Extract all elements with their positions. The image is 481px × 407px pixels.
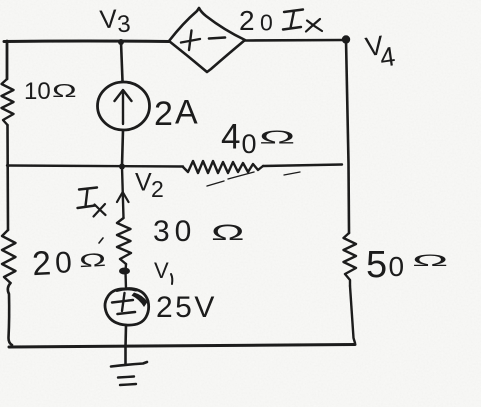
label 20ohm [31,241,107,283]
resistor R 10ohm vertical zigzag [2,79,14,125]
arrow inside current source [115,90,132,124]
svg-text:0: 0 [242,129,257,159]
svg-text:Ω: Ω [79,250,107,272]
svg-text:0: 0 [260,10,273,36]
plus sign inside voltage source [112,293,133,311]
label 10ohm omega [52,81,77,101]
svg-text:Ω: Ω [52,81,77,101]
faint mark right of resistor [284,172,300,175]
wire top right from diamond to node V4 [245,39,346,42]
current source U1 circle 2A [98,82,150,130]
dependent source diamond 20Ix [169,8,245,72]
node V4 junction dot [342,35,350,43]
svg-text:3: 3 [116,10,131,38]
label V3 [99,2,132,39]
right rail top segment [346,40,349,234]
svg-text:25V: 25V [156,291,217,324]
label 40ohm [221,118,295,160]
wire current source to middle node [122,130,123,166]
svg-text:V: V [99,3,119,34]
right rail bottom segment [350,286,355,343]
svg-text:2: 2 [31,244,52,283]
wire bottom rail [9,345,355,348]
svg-text:Ω: Ω [412,251,448,270]
svg-text:Ω: Ω [259,127,295,147]
svg-text:10: 10 [24,78,51,105]
label 20Ix [239,5,322,36]
svg-text:2: 2 [154,95,173,133]
wire middle horizontal right to right rail [263,165,342,167]
left rail middle segment [6,125,9,230]
node V1 junction dot [119,268,130,275]
minus sign inside diamond [209,38,225,39]
ground bar 3 [120,384,136,385]
wire middle horizontal left [7,166,183,167]
svg-text:2: 2 [151,176,164,202]
faint retrace under 40ohm resistor [207,172,254,186]
resistor R 20ohm vertical zigzag [2,230,16,283]
svg-text:V: V [154,258,169,283]
resistor R 30ohm vertical zigzag [117,218,131,264]
svg-text:5: 5 [366,244,387,286]
arrowhead Ix pointing up [117,192,129,202]
ground stub [124,347,127,364]
svg-text:2: 2 [239,5,255,36]
plus sign inside diamond [181,31,200,51]
svg-text:A: A [175,94,198,132]
wire top left from corner to diamond [4,40,169,44]
voltage source 25V circle [105,289,149,326]
left rail bottom segment [8,283,12,345]
svg-text:V: V [135,169,152,197]
wire voltage source to bottom rail [124,325,127,347]
ground bar 1 [111,362,147,367]
svg-text:Ω: Ω [211,220,244,245]
label Ix [78,188,106,217]
wire V2 down with Ix arrowhead [122,167,124,218]
wire node V1 to voltage source [124,272,127,289]
wire V3 down to current source [121,42,123,81]
node V2 junction dot [119,164,125,170]
wire resistor to node V1 [124,264,127,272]
label 30ohm omega [211,220,244,245]
resistor R 40ohm horizontal zigzag [183,161,263,173]
svg-text:4: 4 [221,118,240,157]
left rail top segment [6,41,9,79]
label 50ohm [366,244,448,286]
svg-text:0: 0 [54,246,72,280]
minus sign inside voltage source [118,312,136,314]
svg-text:0: 0 [389,251,405,282]
apostrophe after 20ohm [99,238,103,243]
smudge on voltage source rim [132,293,148,308]
svg-text:30: 30 [153,215,196,248]
label V4 [363,29,397,75]
resistor R 50ohm vertical zigzag [344,233,357,286]
label V1 subscript [171,274,172,284]
ground bar 2 [118,377,134,378]
node V3 junction dot [118,39,124,45]
